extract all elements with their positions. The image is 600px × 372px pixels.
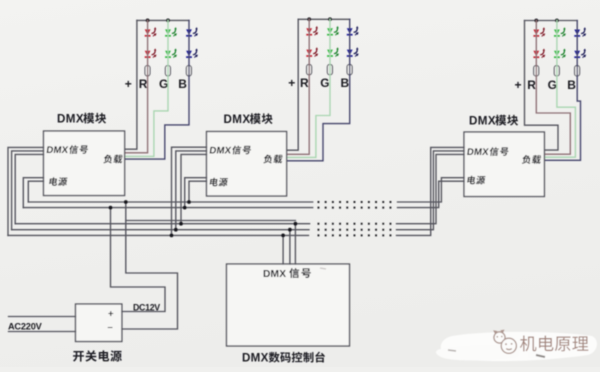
wire + feed module 2 (287, 19, 299, 150)
svg-text:+: + (108, 309, 114, 320)
wire AC L (9, 316, 76, 318)
bus GND dotted continuation (318, 207, 396, 209)
LED blue1 group 3 (574, 30, 580, 36)
junction dot G group 1 (166, 19, 170, 23)
svg-text:+: + (125, 77, 132, 91)
wire R feed module 2 (287, 19, 310, 154)
LED blue1 group 2 (347, 28, 353, 34)
LED green1 group 1 (165, 29, 171, 35)
svg-text:G: G (548, 78, 557, 92)
bus DMX C left (8, 234, 309, 236)
wire AC N (9, 331, 76, 333)
junction U2-A on bus DMX C (170, 234, 174, 238)
wire U2 DMX in A (172, 147, 207, 235)
DMX module box U1 (44, 131, 125, 196)
wire U1 power in B (28, 181, 43, 202)
junction dot G group 3 (555, 19, 559, 23)
label 电源 U1 (49, 177, 68, 186)
wire controller out B (289, 230, 291, 264)
LED green2 group 3 (554, 51, 560, 57)
wire U2 DMX in C (181, 154, 207, 223)
resistor red group 3 (534, 66, 539, 76)
LED red2 group 3 (533, 51, 539, 57)
svg-text:+: + (288, 76, 295, 90)
junction U2-B on bus DMX B (174, 228, 178, 232)
LED red1 group 1 (145, 29, 151, 35)
svg-text:B: B (341, 76, 350, 90)
LED green2 group 1 (165, 51, 171, 57)
junction ctrl-C on bus DMX A (294, 222, 298, 226)
label DMX信号 U1 (46, 145, 89, 156)
bus +12V left (28, 201, 312, 203)
wire + feed module 1 (125, 20, 137, 149)
wire DC +12V to bus (111, 208, 166, 312)
junction U2-C on bus DMX A (179, 222, 183, 226)
watermark cat logo (494, 330, 516, 353)
wire U2 power in A (185, 178, 207, 208)
wire U1 DMX in A (8, 147, 44, 235)
wire DC GND to bus (122, 202, 178, 329)
bus +12V right to U3 (398, 178, 465, 202)
svg-text:AC220V: AC220V (8, 322, 43, 332)
label DMX信号 U3 (466, 147, 509, 158)
wire G feed module 1 (125, 20, 168, 156)
wire U1 power in A (23, 178, 43, 208)
wire + top bus group 1 (137, 19, 189, 21)
svg-text:DMX: DMX (242, 352, 269, 365)
LED green1 group 3 (554, 30, 560, 36)
svg-text:DMX: DMX (466, 147, 490, 158)
junction dot R group 3 (534, 19, 538, 23)
svg-text:DMX: DMX (224, 113, 251, 126)
LED blue2 group 2 (347, 50, 353, 56)
DMX controller box (227, 264, 350, 346)
wire G feed module 3 (544, 21, 575, 158)
wire B feed module 3 (544, 21, 580, 161)
svg-text:DMX: DMX (469, 115, 496, 128)
bus DMX B right to U3 (397, 151, 465, 230)
resistor blue group 2 (347, 64, 352, 74)
wire R feed module 3 (536, 21, 570, 155)
bus DMX C right to U3 (397, 147, 465, 235)
DMX module box U2 (207, 132, 287, 197)
label 负载 U2 (263, 155, 283, 164)
bus DMX B left (12, 229, 309, 231)
LED blue2 group 1 (186, 51, 192, 57)
wire G feed module 2 (287, 19, 330, 157)
resistor blue group 1 (186, 66, 191, 76)
junction DC+ on bus GND line (109, 206, 113, 210)
switching power supply box (76, 304, 122, 342)
wire R feed module 1 (125, 20, 148, 152)
LED green2 group 2 (327, 50, 333, 56)
resistor red group 1 (145, 66, 150, 76)
resistor red group 2 (307, 64, 312, 74)
junction DC- on bus +12V line (124, 200, 128, 204)
svg-text:+: + (515, 78, 522, 92)
junction dot R group 1 (146, 19, 150, 23)
bus DMX C dotted continuation (318, 234, 396, 236)
wire U1 DMX in B (12, 151, 44, 230)
DMX module box U3 (464, 132, 544, 197)
label 电源 U2 (209, 178, 228, 187)
bus DMX A right to U3 (397, 154, 465, 223)
junction ctrl-A on bus DMX C (281, 234, 285, 238)
label 开关电源 (73, 351, 84, 362)
svg-text:G: G (320, 76, 329, 90)
wire mid branch (126, 220, 296, 222)
LED blue1 group 1 (186, 29, 192, 35)
watermark text 机电原理 (520, 336, 536, 352)
resistor green group 2 (327, 64, 332, 74)
junction ctrl-B on bus DMX B (288, 228, 292, 232)
LED blue2 group 3 (574, 51, 580, 57)
watermark brush stroke (441, 332, 597, 361)
LED green1 group 2 (327, 28, 333, 34)
label 负载 U1 (103, 155, 123, 164)
bus GND right to U3 (398, 181, 465, 207)
junction dot G group 2 (328, 17, 332, 21)
label 负载 U3 (522, 155, 542, 164)
LED red2 group 1 (145, 51, 151, 57)
wire U1 DMX in C (15, 154, 43, 223)
bus DMX A left (15, 223, 309, 225)
resistor green group 3 (554, 66, 559, 76)
svg-text:R: R (300, 76, 309, 90)
svg-text:DMX: DMX (263, 269, 286, 280)
svg-text:DMX: DMX (46, 145, 70, 156)
svg-text:R: R (527, 78, 536, 92)
wire + top bus group 3 (525, 20, 578, 22)
wire U2 power in B (189, 181, 207, 202)
svg-text:DMX: DMX (209, 146, 233, 157)
svg-text:DMX: DMX (57, 113, 84, 126)
svg-text:–: – (108, 322, 113, 333)
svg-text:B: B (567, 78, 576, 92)
svg-text:B: B (178, 77, 187, 91)
LED red1 group 3 (533, 30, 539, 36)
wire controller out A (282, 235, 284, 264)
wire B feed module 2 (287, 19, 350, 161)
bus +12V dotted continuation (318, 201, 396, 203)
resistor blue group 3 (575, 66, 580, 76)
svg-text:R: R (139, 77, 148, 91)
wire controller out C (294, 224, 296, 264)
wire B feed module 1 (125, 20, 189, 159)
junction U2 power B on bus +12V (187, 200, 191, 204)
label DMX信号 U2 (209, 146, 252, 157)
bus DMX A dotted continuation (318, 223, 396, 225)
resistor green group 1 (165, 66, 170, 76)
wire + feed module 3 (525, 21, 559, 151)
bus GND left (23, 207, 312, 209)
junction dot R group 2 (307, 17, 311, 21)
label 电源 U3 (467, 176, 486, 185)
svg-text:G: G (159, 77, 168, 91)
junction U2 power A on bus GND (183, 206, 187, 210)
watermark small marks (448, 350, 456, 351)
wire U2 DMX in B (176, 151, 207, 230)
wire + top bus group 2 (298, 18, 350, 20)
LED red1 group 2 (306, 28, 312, 34)
bus DMX B dotted continuation (318, 229, 396, 231)
LED red2 group 2 (306, 50, 312, 56)
